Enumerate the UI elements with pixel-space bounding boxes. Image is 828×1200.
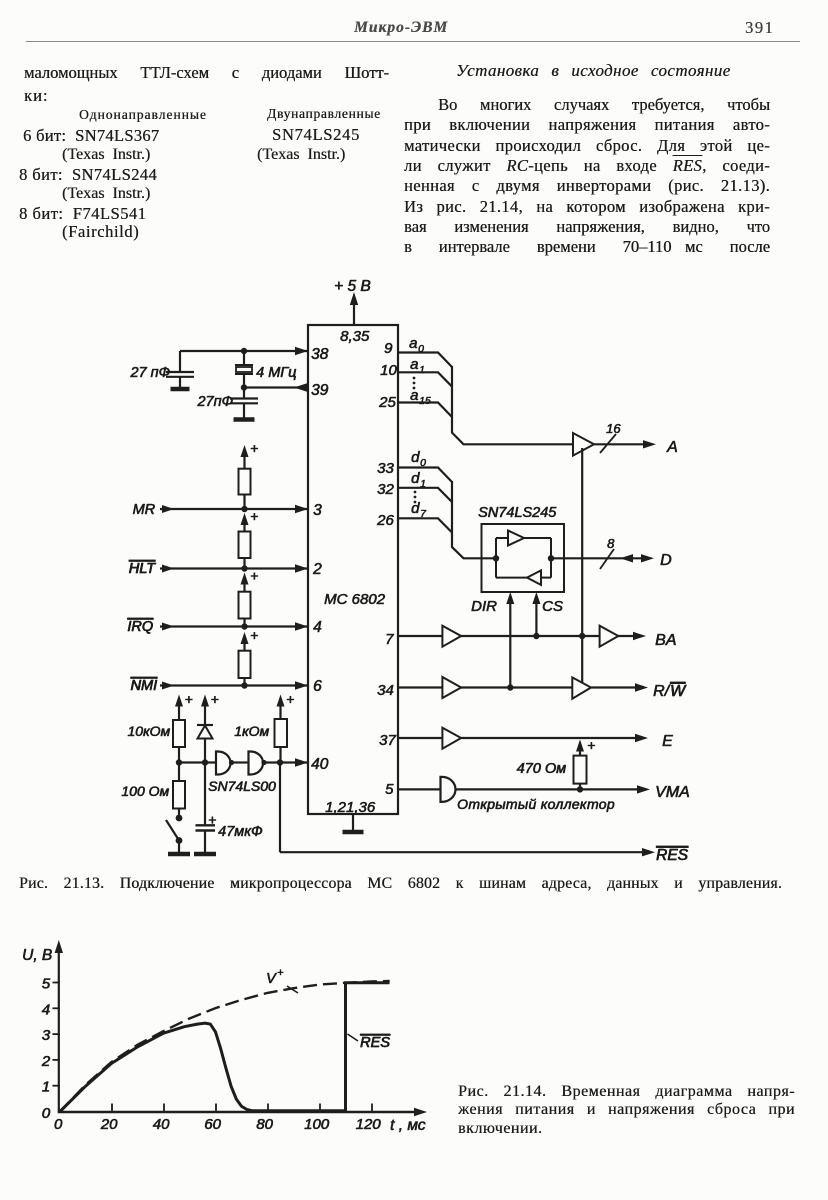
bus D vertical: [452, 481, 496, 558]
x tick 40: [163, 1104, 165, 1113]
graph Y axis: [58, 948, 60, 1113]
running head: [354, 19, 474, 37]
buffer A: [573, 433, 594, 456]
wire DIR control: [509, 597, 511, 688]
y tick 5: [53, 982, 61, 984]
svg-text:4: 4: [42, 1001, 50, 1018]
diode VD1: [204, 739, 206, 763]
dots a1..a15: [413, 377, 416, 380]
pull-up supply arrow NMI: [243, 640, 245, 651]
leader RES: [348, 1034, 359, 1041]
junction IRQ/resistor: [241, 623, 247, 629]
x tick 80: [267, 1104, 269, 1113]
wire a0: [398, 353, 452, 368]
junction CS/BA: [533, 633, 539, 639]
junction NMI/resistor: [241, 682, 247, 688]
junction D left: [493, 555, 499, 561]
svg-text:V: V: [266, 971, 277, 987]
leader V+: [287, 986, 298, 993]
ground C2: [243, 417, 245, 420]
y tick 2: [53, 1059, 61, 1061]
wire CS control: [535, 597, 537, 636]
svg-text:1: 1: [42, 1079, 50, 1096]
junction crystal top: [241, 348, 247, 354]
wire NMI: [160, 684, 308, 686]
bus width slash 16: [600, 434, 616, 453]
svg-text:0: 0: [54, 1116, 63, 1133]
wire E from pin 37: [398, 737, 442, 739]
svg-text:60: 60: [204, 1116, 221, 1133]
resistor pull-up IRQ: [239, 592, 251, 619]
bus A vertical: [452, 366, 573, 444]
wire A out: [594, 443, 647, 445]
junction diode node: [202, 759, 208, 765]
buffer U2 bottom (left-pointing): [527, 570, 541, 585]
svg-text:RES: RES: [360, 1035, 390, 1051]
resistor R1 10kOm: [173, 720, 185, 747]
junction HLT/resistor: [241, 565, 247, 571]
gate U3a SN74LS00 inverter: [216, 752, 231, 775]
wire d1: [398, 488, 452, 502]
svg-text:20: 20: [100, 1116, 118, 1133]
ground switch: [178, 843, 180, 854]
resistor R4 470 Om: [574, 756, 587, 784]
wire a15: [398, 403, 452, 418]
supply arrow R2: [279, 702, 281, 719]
left column: [24, 63, 389, 83]
x tick 120: [371, 1104, 373, 1113]
wire IRQ: [160, 625, 308, 627]
svg-text:2: 2: [41, 1053, 51, 1070]
capacitor C1 27pF left: [179, 351, 181, 372]
supply arrow R4: [579, 747, 581, 756]
caption fig 21.13: [19, 875, 782, 893]
transceiver loop bottom edge: [496, 577, 527, 579]
chip U2 SN74LS245 box: [482, 524, 565, 592]
x tick 100: [319, 1104, 321, 1113]
transceiver loop right edge: [550, 538, 552, 578]
right column: [456, 61, 756, 81]
ground C3: [204, 852, 206, 854]
wire pin38: [180, 350, 308, 352]
wire RW from pin 34: [398, 686, 442, 688]
graph X axis: [58, 1111, 418, 1114]
buffer RW 2: [572, 677, 591, 698]
y tick 1: [53, 1085, 61, 1087]
chip U1 MC 6802: [308, 325, 398, 814]
resistor pull-up HLT: [239, 532, 251, 559]
buffer RW 1: [442, 677, 461, 698]
caption fig 21.14: [458, 1083, 795, 1101]
junction tie/BA: [579, 633, 585, 639]
wire to pin 40: [266, 761, 308, 763]
gate U3b SN74LS00 inverter: [249, 752, 264, 775]
junction R1 node: [176, 759, 182, 765]
svg-text:80: 80: [256, 1116, 273, 1133]
wire d7: [398, 518, 452, 532]
wire HLT: [160, 567, 308, 569]
dots d1..d7: [414, 491, 417, 494]
svg-text:120: 120: [355, 1116, 381, 1133]
wire a1: [398, 372, 452, 386]
resistor R2 1kOm: [275, 719, 288, 747]
capacitor C2 27pF: [243, 388, 245, 399]
pull-up supply arrow MR: [243, 453, 245, 469]
x tick 20: [111, 1104, 113, 1113]
wire MR: [160, 508, 308, 510]
buffer BA 2: [600, 626, 619, 647]
svg-text:+: +: [277, 967, 284, 979]
crystal X1 4MHz: [243, 351, 245, 365]
svg-text:40: 40: [153, 1116, 170, 1133]
wire node RES-input: [179, 761, 216, 763]
junction node40/RES: [277, 759, 283, 765]
svg-text:100: 100: [304, 1116, 330, 1133]
pull-up supply arrow HLT: [243, 521, 245, 532]
wire VMA from pin 5: [398, 788, 441, 790]
buffer BA 1: [442, 626, 461, 647]
buffer E: [442, 728, 461, 749]
svg-text:0: 0: [42, 1105, 51, 1122]
bus width slash 8: [600, 549, 614, 569]
svg-text:t , мс: t , мс: [390, 1117, 426, 1134]
transceiver loop top edge: [496, 537, 508, 539]
junction DIR/RW: [507, 684, 513, 690]
gate VMA open-collector: [441, 777, 456, 802]
resistor pull-up NMI: [239, 651, 251, 678]
junction MR/resistor: [241, 506, 247, 512]
supply arrow R1: [178, 702, 180, 720]
svg-text:U, В: U, В: [22, 947, 52, 964]
wire RES out: [279, 763, 281, 853]
wire d0: [398, 468, 452, 483]
ground C1: [179, 377, 181, 389]
junction crystal bottom: [241, 384, 247, 390]
transceiver loop left edge: [495, 538, 497, 578]
capacitor C3 47uF: [204, 763, 206, 826]
wire +5V supply: [353, 297, 355, 325]
junction R4/VMA: [577, 786, 583, 792]
pull-up supply arrow IRQ: [243, 581, 245, 592]
curve RES solid: [60, 983, 390, 1112]
svg-text:5: 5: [42, 976, 51, 993]
curve V+ dashed: [60, 981, 390, 1112]
y tick 4: [53, 1007, 61, 1009]
wire BA from pin 7: [398, 635, 442, 637]
wire D out: [551, 557, 647, 559]
wire pin39: [244, 386, 308, 388]
junction D right: [548, 555, 554, 561]
wire gate1 to gate2: [234, 761, 249, 763]
switch S1: [178, 809, 180, 816]
resistor pull-up MR: [239, 469, 251, 495]
x tick 60: [215, 1104, 217, 1113]
vertical tie A-buffer to RW-buffer: [581, 448, 583, 684]
svg-text:3: 3: [42, 1027, 51, 1044]
resistor R3 100 Om: [178, 763, 180, 782]
y tick 3: [53, 1033, 61, 1035]
ground chip: [352, 814, 354, 832]
buffer U2 top (right-pointing): [508, 531, 524, 546]
